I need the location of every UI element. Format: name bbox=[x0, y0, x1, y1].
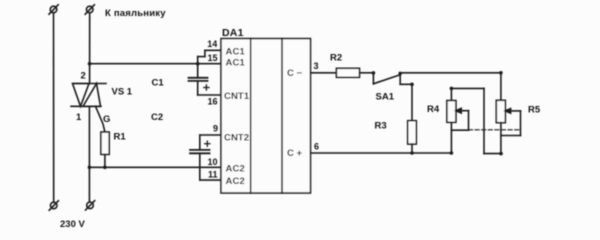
node junction on right rail bbox=[88, 62, 92, 66]
svg-text:1: 1 bbox=[76, 112, 82, 123]
node R5 bottom bbox=[499, 152, 503, 156]
svg-text:15: 15 bbox=[207, 53, 217, 63]
terminal bottom-right bbox=[86, 201, 95, 210]
svg-text:AC1: AC1 bbox=[226, 47, 246, 58]
svg-text:11: 11 bbox=[208, 169, 218, 179]
svg-text:9: 9 bbox=[213, 124, 218, 134]
mechanical link dashed bbox=[469, 129, 521, 131]
svg-text:R3: R3 bbox=[375, 120, 387, 131]
node R1 bottom bbox=[103, 166, 107, 170]
wire bottom-left to pin 10 bbox=[89, 166, 221, 168]
wire pin 3 bbox=[311, 72, 337, 74]
IC DA1 body bbox=[221, 39, 311, 193]
node SA1 left contact bbox=[372, 71, 376, 75]
svg-text:AC2: AC2 bbox=[226, 176, 245, 187]
node R4 top bbox=[450, 87, 454, 91]
svg-text:6: 6 bbox=[314, 142, 319, 152]
svg-text:R5: R5 bbox=[528, 105, 541, 116]
svg-text:AC2: AC2 bbox=[226, 164, 245, 175]
svg-text:SA1: SA1 bbox=[376, 92, 395, 103]
svg-text:R2: R2 bbox=[330, 53, 342, 64]
wire switch to R5 top bbox=[400, 72, 501, 74]
resistor R1 bbox=[101, 132, 109, 167]
svg-text:DA1: DA1 bbox=[222, 27, 244, 39]
wire pin 15 link bbox=[198, 57, 205, 78]
node R4 bottom bbox=[450, 151, 454, 155]
capacitor C1 bbox=[189, 78, 222, 95]
wire pin 6 rail bbox=[311, 152, 452, 154]
svg-text:3: 3 bbox=[314, 61, 319, 71]
switch SA1 bbox=[373, 73, 400, 85]
wire AC1 node horizontal bbox=[90, 63, 221, 65]
svg-text:CNT1: CNT1 bbox=[224, 91, 250, 102]
resistor R4 bbox=[447, 88, 456, 153]
node SA1 right contact bbox=[398, 72, 402, 76]
svg-text:C −: C − bbox=[287, 68, 303, 79]
svg-text:C1: C1 bbox=[152, 78, 165, 89]
node rail bottom bbox=[88, 166, 92, 170]
node R3 bottom bbox=[410, 151, 414, 155]
node C1 top bbox=[196, 62, 200, 66]
svg-text:2: 2 bbox=[81, 71, 86, 82]
svg-text:R1: R1 bbox=[114, 132, 127, 143]
svg-text:14: 14 bbox=[207, 39, 217, 49]
wiper R5 bbox=[501, 109, 521, 136]
resistor R2 bbox=[336, 68, 359, 77]
svg-text:10: 10 bbox=[207, 157, 217, 167]
wire left rail bbox=[53, 13, 55, 203]
wire right rail lower bbox=[88, 106, 90, 202]
svg-text:230 V: 230 V bbox=[60, 219, 85, 230]
wire pin 14 link bbox=[205, 50, 221, 56]
terminal top-left bbox=[49, 5, 58, 14]
node R5 top bbox=[499, 71, 503, 75]
svg-text:C2: C2 bbox=[151, 112, 163, 123]
svg-text:C +: C + bbox=[287, 148, 303, 159]
svg-text:16: 16 bbox=[207, 97, 217, 107]
resistor R3 bbox=[408, 121, 417, 153]
triac VS1 bbox=[71, 84, 106, 133]
svg-text:G: G bbox=[103, 114, 110, 125]
wire R4 top to R5 bottom bbox=[451, 88, 501, 153]
wire right rail upper bbox=[89, 13, 91, 84]
svg-text:CNT2: CNT2 bbox=[224, 132, 249, 143]
wire branch to R3 bbox=[400, 84, 412, 121]
node R3 branch bbox=[410, 83, 414, 87]
terminal bottom-left bbox=[49, 201, 58, 210]
terminal top-right bbox=[85, 5, 94, 14]
svg-text:AC1: AC1 bbox=[226, 58, 246, 69]
wire R2 to switch bbox=[360, 72, 374, 74]
svg-text:VS 1: VS 1 bbox=[112, 87, 133, 98]
wire pin 9 link bbox=[200, 135, 221, 150]
svg-text:R4: R4 bbox=[427, 104, 440, 115]
svg-text:К паяльнику: К паяльнику bbox=[105, 8, 166, 19]
resistor R5 bbox=[496, 73, 505, 154]
capacitor C2 bbox=[190, 141, 221, 180]
wiper R4 bbox=[451, 108, 468, 130]
